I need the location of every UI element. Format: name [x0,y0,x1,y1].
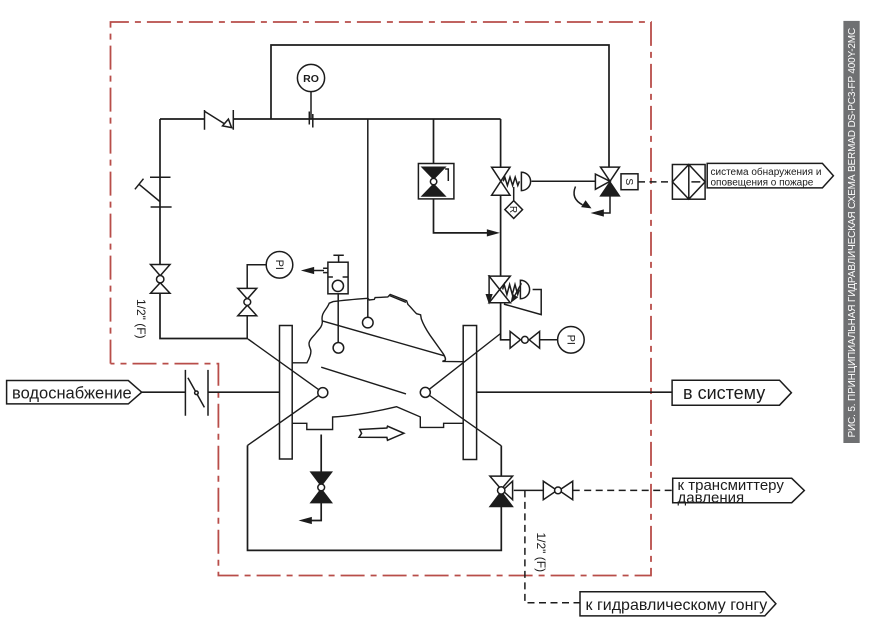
svg-text:оповещения о пожаре: оповещения о пожаре [711,177,814,188]
svg-text:1/2" (F): 1/2" (F) [534,533,548,573]
svg-text:RO: RO [303,73,319,85]
svg-text:PI: PI [564,335,576,345]
svg-text:давления: давления [678,489,745,506]
svg-text:1/2" (F): 1/2" (F) [134,299,148,339]
svg-text:S: S [623,178,635,185]
svg-text:в систему: в систему [683,383,765,403]
svg-text:к гидравлическому гонгу: к гидравлическому гонгу [586,597,768,614]
svg-text:водоснабжение: водоснабжение [12,384,132,402]
svg-text:РИС. 5. ПРИНЦИПИАЛЬНАЯ ГИДРАВЛ: РИС. 5. ПРИНЦИПИАЛЬНАЯ ГИДРАВЛИЧЕСКАЯ СХ… [847,28,858,438]
svg-text:система обнаружения и: система обнаружения и [711,166,822,178]
svg-text:R: R [507,206,518,213]
svg-text:PI: PI [273,260,285,270]
